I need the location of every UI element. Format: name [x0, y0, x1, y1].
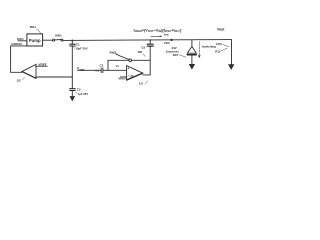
svg-text:SW1: SW1: [55, 34, 62, 38]
svg-text:SW2: SW2: [109, 51, 116, 55]
svg-text:C2: C2: [77, 88, 81, 92]
svg-text:+: +: [127, 67, 129, 71]
svg-text:C5: C5: [141, 45, 145, 49]
node C1 top junction: [71, 39, 73, 41]
diode D10: [187, 46, 196, 53]
wire VREF stub A1: [36, 65, 47, 67]
ground arrow below D10: [189, 64, 194, 69]
pump block U1: [27, 34, 43, 46]
wire C2 to ground: [71, 91, 73, 98]
node Vout junction: [170, 39, 172, 41]
wire ENOSC stub: [11, 45, 27, 47]
wire C5 to rail: [149, 40, 151, 44]
wire pump output: [43, 39, 53, 41]
pointer D10: [179, 55, 186, 58]
capacitor C2: [70, 88, 76, 90]
svg-text:1/2: 1/2: [17, 78, 22, 82]
svg-text:D10: D10: [173, 53, 179, 57]
svg-text:R11: R11: [215, 50, 221, 54]
wire feedback to ENOSC: [11, 46, 22, 72]
op-amp A2: [127, 66, 143, 80]
svg-text:A2: A2: [130, 74, 134, 78]
svg-text:Pump: Pump: [29, 38, 41, 43]
ground arrow right rail: [229, 65, 234, 70]
capacitor C3 plates: [100, 68, 102, 73]
capacitor C5: [147, 45, 153, 47]
wire Vout rail down: [231, 40, 233, 65]
wire VREF stub A2: [120, 76, 126, 78]
node C5 rail junction: [149, 39, 151, 41]
wire top rail: [63, 39, 232, 42]
svg-text:0.1: 0.1: [95, 69, 99, 72]
svg-text:Iout: Iout: [164, 33, 169, 37]
wire right feedback rail: [149, 47, 151, 75]
wire opamp A1 plus input: [36, 76, 72, 78]
svg-text:10µF 25V: 10µF 25V: [75, 47, 87, 51]
svg-text:VOZ: VOZ: [164, 41, 170, 45]
svg-text:C3: C3: [100, 64, 104, 68]
svg-text:Iswitching: Iswitching: [202, 44, 216, 48]
svg-text:Vout: Vout: [217, 28, 225, 32]
wire C1 to node: [71, 46, 73, 77]
switch SW1: [53, 39, 55, 41]
wire SW2 column: [107, 60, 109, 70]
current arrow Iswitching: [198, 42, 200, 56]
svg-text:VREF: VREF: [38, 63, 46, 67]
svg-text:BH1: BH1: [30, 25, 36, 29]
wire VMIN to opamp A2: [78, 69, 101, 71]
arrow current direction: [151, 35, 162, 37]
svg-text:1/2: 1/2: [139, 82, 144, 86]
wire switch line: [108, 59, 150, 61]
wire D10 top: [191, 40, 193, 47]
svg-text:NO: NO: [138, 50, 143, 54]
wire C1 column upper: [71, 40, 73, 44]
svg-text:1µF 25V: 1µF 25V: [78, 92, 88, 96]
ground arrow below C2: [70, 97, 74, 101]
svg-text:C PA: C PA: [216, 42, 223, 46]
wire OSC stub: [18, 40, 27, 42]
capacitor C1: [70, 43, 76, 45]
svg-text:tHIGH=(VOUT−VIN)[tOSC+tDLY]: tHIGH=(VOUT−VIN)[tOSC+tDLY]: [134, 28, 182, 33]
svg-text:V+: V+: [116, 64, 120, 68]
wire A2 output: [143, 74, 151, 76]
pointer BH1: [37, 29, 41, 33]
wire node to C2: [71, 77, 73, 89]
wire D10 bottom: [191, 56, 193, 66]
switch SW2: [129, 59, 132, 62]
op-amp A1: [22, 64, 36, 78]
